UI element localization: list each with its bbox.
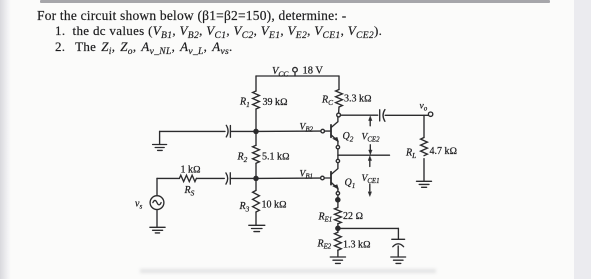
svg-text:RE1: RE1: [318, 212, 333, 224]
capacitor C2 input coupling: [226, 173, 230, 184]
VCE2 arrow indicator: [369, 116, 372, 155]
wire RL to ground: [423, 159, 425, 181]
wire rail to R1: [255, 76, 257, 91]
svg-text:R2: R2: [237, 152, 248, 164]
resistor R1: [253, 91, 260, 109]
svg-text:Q2: Q2: [343, 131, 354, 143]
resistor RC: [336, 90, 343, 108]
resistor RS: [179, 175, 196, 181]
wire vo down to RL: [423, 115, 425, 137]
wire VB1 node to R3: [255, 178, 257, 190]
header text: [37, 8, 347, 24]
wire Q1 emitter to RE1: [337, 195, 339, 208]
node emitter Q1: [336, 192, 339, 195]
node collector Q2: [337, 113, 341, 117]
svg-text:VB1: VB1: [300, 170, 313, 181]
wire R3 to ground: [255, 212, 257, 225]
wire RE2 to ground: [337, 250, 339, 257]
source vs: [150, 196, 164, 210]
wire R2 to node VB1: [255, 164, 257, 179]
node VB2 junction: [254, 129, 258, 133]
wire C1 to node VB2: [231, 130, 256, 132]
ground below C4: [391, 257, 406, 263]
svg-text:VCE1: VCE1: [362, 174, 380, 185]
wire VB1 node to Q1 base: [256, 177, 321, 179]
svg-text:10 kΩ: 10 kΩ: [262, 200, 288, 211]
wire ground to C1: [160, 130, 225, 132]
resistor RE1: [335, 208, 342, 224]
svg-text:RL: RL: [405, 148, 416, 160]
node vo terminal: [428, 112, 432, 116]
capacitor C3 output coupling: [380, 110, 385, 122]
node emitter Q2: [336, 146, 339, 149]
node junction RE1/RE2/CE: [336, 226, 340, 230]
wire junction to bypass cap: [340, 228, 398, 239]
svg-text:1.3 kΩ: 1.3 kΩ: [343, 240, 371, 251]
bottom faint blur line: [140, 269, 436, 273]
svg-text:22 Ω: 22 Ω: [343, 211, 364, 222]
resistor RE2: [335, 232, 342, 250]
ground below R3: [249, 225, 265, 231]
svg-text:vo: vo: [420, 102, 428, 113]
left page-edge strip: [0, 0, 11, 279]
node collector Q1: [336, 159, 339, 162]
svg-text:RS: RS: [184, 185, 195, 197]
svg-text:RE2: RE2: [317, 239, 332, 251]
wire Q2 emitter to Q1 collector: [337, 149, 339, 159]
wire mid junction to right: [338, 154, 390, 156]
resistor R2: [253, 145, 260, 163]
wire VB2 node to R2: [255, 131, 257, 145]
svg-text:VCE2: VCE2: [362, 133, 381, 144]
ground top-left: [153, 131, 167, 150]
VCC terminal: [293, 67, 298, 76]
wire vs to RS row: [157, 178, 179, 195]
wire R1 to node VB2: [255, 109, 257, 131]
wire VB2 node to Q2 base: [256, 130, 321, 132]
wire collector to coupling cap: [341, 114, 378, 116]
ground below RL: [417, 181, 432, 187]
transistor Q2: [321, 117, 338, 145]
wire vs to ground: [156, 210, 158, 228]
svg-text:RC: RC: [321, 95, 333, 107]
svg-text:39 kΩ: 39 kΩ: [263, 97, 289, 108]
ground below vs: [150, 227, 165, 233]
wire RS to C2: [197, 177, 225, 179]
wire cap to vo: [385, 114, 428, 116]
VCE1 arrow indicator: [368, 156, 371, 197]
svg-text:1 kΩ: 1 kΩ: [181, 165, 202, 176]
resistor RL: [421, 138, 428, 156]
resistor R3: [253, 190, 260, 212]
svg-text:5.1 kΩ: 5.1 kΩ: [262, 152, 290, 163]
svg-text:VB2: VB2: [300, 123, 314, 134]
svg-text:3.3 kΩ: 3.3 kΩ: [344, 94, 372, 105]
top dark scan bar: [40, 0, 550, 3]
right page-edge strip: [574, 0, 591, 279]
svg-text:R3: R3: [239, 201, 250, 213]
junction dot above RE1: [336, 198, 340, 202]
transistor Q1: [321, 163, 339, 192]
wire VCC rail: [256, 75, 339, 77]
capacitor C1 (VB2 bypass): [226, 125, 230, 137]
wire rail to RC: [338, 76, 340, 90]
svg-text:Q1: Q1: [345, 178, 356, 190]
wire C2 to node VB1: [231, 177, 257, 179]
ground below RE2: [330, 257, 345, 263]
svg-text:18 V: 18 V: [303, 66, 324, 77]
svg-text:R1: R1: [239, 97, 250, 109]
wire RC to collector node: [338, 107, 340, 113]
svg-text:VCC: VCC: [272, 66, 289, 79]
node VB1 junction: [254, 176, 258, 180]
svg-text:vs: vs: [135, 199, 142, 211]
svg-text:4.7 kΩ: 4.7 kΩ: [430, 146, 458, 157]
capacitor C4 emitter bypass: [392, 239, 405, 256]
wire RE1 to RE2: [337, 224, 339, 233]
